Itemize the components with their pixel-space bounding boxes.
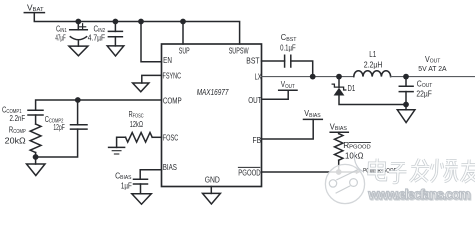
svg-text:22µF: 22µF (416, 89, 431, 98)
svg-text:D1: D1 (348, 84, 356, 93)
svg-text:SUP: SUP (179, 47, 190, 56)
svg-text:SUPSW: SUPSW (229, 47, 249, 56)
svg-text:www.elecfans.com: www.elecfans.com (367, 187, 471, 202)
svg-text:VBIAS: VBIAS (330, 122, 347, 132)
svg-text:5V AT 2A: 5V AT 2A (418, 64, 446, 73)
svg-text:20kΩ: 20kΩ (5, 137, 26, 146)
svg-text:4.7µF: 4.7µF (88, 34, 105, 43)
svg-text:PGOOD: PGOOD (238, 169, 260, 178)
svg-text:FB: FB (253, 136, 262, 145)
svg-text:0.1µF: 0.1µF (280, 43, 296, 52)
svg-text:CIN1: CIN1 (56, 24, 67, 34)
svg-text:CBST: CBST (281, 33, 297, 43)
svg-text:LX: LX (255, 72, 262, 81)
svg-text:BST: BST (246, 56, 259, 65)
svg-text:RCOMP: RCOMP (9, 125, 26, 135)
svg-text:2.2nF: 2.2nF (10, 114, 26, 123)
svg-text:BIAS: BIAS (163, 163, 177, 172)
svg-text:FSYNC: FSYNC (163, 71, 182, 80)
svg-text:EN: EN (163, 56, 172, 65)
svg-text:12pF: 12pF (53, 123, 64, 132)
svg-text:VOUT: VOUT (281, 80, 295, 90)
svg-text:VBAT: VBAT (27, 3, 44, 13)
svg-text:GND: GND (205, 176, 220, 185)
svg-text:VBIAS: VBIAS (304, 109, 321, 119)
svg-text:RFOSC: RFOSC (129, 110, 144, 120)
svg-text:CBIAS: CBIAS (115, 171, 132, 181)
svg-text:1µF: 1µF (121, 181, 132, 190)
svg-text:FOSC: FOSC (163, 133, 178, 142)
svg-text:MAX16977: MAX16977 (197, 87, 230, 97)
svg-text:COMP: COMP (163, 96, 182, 105)
svg-text:47µF: 47µF (55, 34, 65, 43)
svg-text:12kΩ: 12kΩ (130, 120, 143, 129)
svg-text:L1: L1 (369, 50, 376, 59)
svg-text:OUT: OUT (248, 96, 261, 105)
svg-text:2.2µH: 2.2µH (364, 61, 383, 70)
svg-text:COUT: COUT (417, 80, 433, 90)
